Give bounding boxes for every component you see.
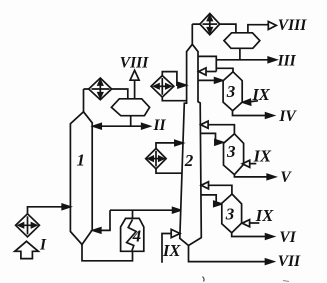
stream I block arrow: [15, 241, 39, 258]
wire VI product line: [232, 233, 266, 237]
furnace 4 coil: [127, 220, 137, 251]
wire column 1 overhead riser: [83, 89, 85, 112]
stream I label: [39, 237, 47, 254]
stream IX label (bottom): [162, 241, 181, 260]
stream IX steam into column 2 bottom: [162, 234, 171, 263]
stripper 2 label 3: [226, 142, 236, 161]
stream VIII arrow (right, open): [268, 22, 276, 30]
wire V product line: [234, 175, 267, 177]
wire stripper 2 vapor return: [208, 125, 235, 134]
svg-text:V: V: [280, 169, 292, 186]
stream VIII label (right): [278, 17, 307, 34]
wire stripper 1 vapor return: [216, 68, 233, 72]
pumparound 2 draw line: [156, 169, 182, 173]
column 1 vessel: [70, 112, 92, 245]
heat exchanger E4 (lower pumparound): [146, 148, 166, 168]
stream VIII label: [120, 54, 149, 71]
wire reflux into column 2 (open arrow): [206, 71, 217, 73]
furnace 4 label: [132, 227, 142, 246]
wire vent line to VIII right: [248, 25, 269, 33]
wire VII bottoms product line: [189, 246, 267, 262]
separator drum S1 (hexagon, column 1): [111, 99, 149, 116]
stripper 1 vessel: [223, 72, 242, 111]
wire stripper 3 vapor return: [208, 185, 232, 194]
svg-text:IX: IX: [162, 241, 181, 260]
svg-text:IX: IX: [251, 85, 270, 104]
wire hot return to column 1: [100, 210, 110, 230]
wire drum S1 bottom stem: [130, 116, 132, 127]
stream IX into stripper 2: [250, 163, 256, 165]
stream IX label (3): [255, 206, 274, 225]
wire transfer line to column 2: [110, 209, 173, 211]
svg-text:3: 3: [226, 142, 236, 161]
stripper 1 label 3: [226, 82, 236, 101]
svg-text:2: 2: [184, 151, 194, 170]
pumparound 2 return line: [156, 143, 175, 149]
svg-text:3: 3: [225, 204, 235, 223]
heat exchanger E1 (column 1 overhead): [89, 78, 112, 100]
stream II label: [153, 117, 167, 134]
wire vent riser to VIII: [134, 80, 136, 99]
wire stripper 1 liquid draw: [198, 79, 216, 81]
stream IX label (1): [251, 85, 270, 104]
column 2 vessel: [180, 44, 202, 245]
heat exchanger E3 (upper pumparound): [151, 76, 174, 98]
stream III label: [277, 52, 297, 69]
stripper 3 label 3: [225, 204, 235, 223]
stream VIII arrow (up, open): [130, 70, 139, 80]
stream IV label: [278, 108, 297, 125]
wire stripper 3 liquid draw: [201, 195, 216, 204]
wire column 1 bottoms to furnace: [82, 245, 133, 261]
pumparound 1 draw line: [162, 97, 186, 101]
svg-text:VIII: VIII: [120, 54, 149, 71]
stream IX into stripper 3: [250, 222, 260, 224]
svg-text:I: I: [39, 237, 47, 254]
heat exchanger E0 (feed preheat): [16, 214, 40, 237]
stripper 3 vessel: [222, 194, 242, 233]
svg-text:4: 4: [132, 227, 142, 246]
stream IX label (2): [253, 147, 272, 166]
furnace 4: [121, 218, 144, 251]
svg-text:II: II: [153, 117, 167, 134]
stream V label: [280, 169, 292, 186]
svg-text:3: 3: [226, 82, 236, 101]
separator drum S2 (hexagon, column 2): [224, 33, 260, 49]
wire stripper 2 liquid draw: [201, 133, 216, 142]
stream IX into stripper 1: [250, 101, 259, 102]
svg-text:VIII: VIII: [278, 17, 307, 34]
wire III product line: [216, 59, 268, 61]
svg-text:1: 1: [77, 151, 86, 170]
stream VII label: [278, 253, 301, 270]
wire III draw from column 2: [198, 56, 216, 71]
svg-text:VII: VII: [278, 253, 301, 270]
wire column 2 overhead riser: [191, 24, 193, 44]
wire furnace riser: [132, 210, 134, 218]
pumparound 1 return line: [162, 72, 178, 86]
column 1 label 1: [77, 151, 86, 170]
wire feed line to column 1: [28, 207, 64, 214]
svg-text:VI: VI: [279, 229, 296, 246]
stripper 2 vessel: [224, 134, 244, 175]
wire drum S2 bottom stem: [239, 48, 241, 60]
svg-text:III: III: [277, 52, 297, 69]
wire column 2 overhead line: [192, 24, 236, 33]
stream II reflux/draw double arrow: [93, 124, 150, 129]
column 2 label 2: [184, 151, 194, 170]
svg-text:IX: IX: [255, 206, 274, 225]
svg-text:IV: IV: [278, 108, 297, 125]
wire column 1 overhead line to condenser: [84, 89, 128, 99]
wire IV product line: [233, 111, 267, 116]
stream VI label: [279, 229, 296, 246]
heat exchanger E2 (column 2 overhead): [200, 14, 220, 35]
svg-text:IX: IX: [253, 147, 272, 166]
